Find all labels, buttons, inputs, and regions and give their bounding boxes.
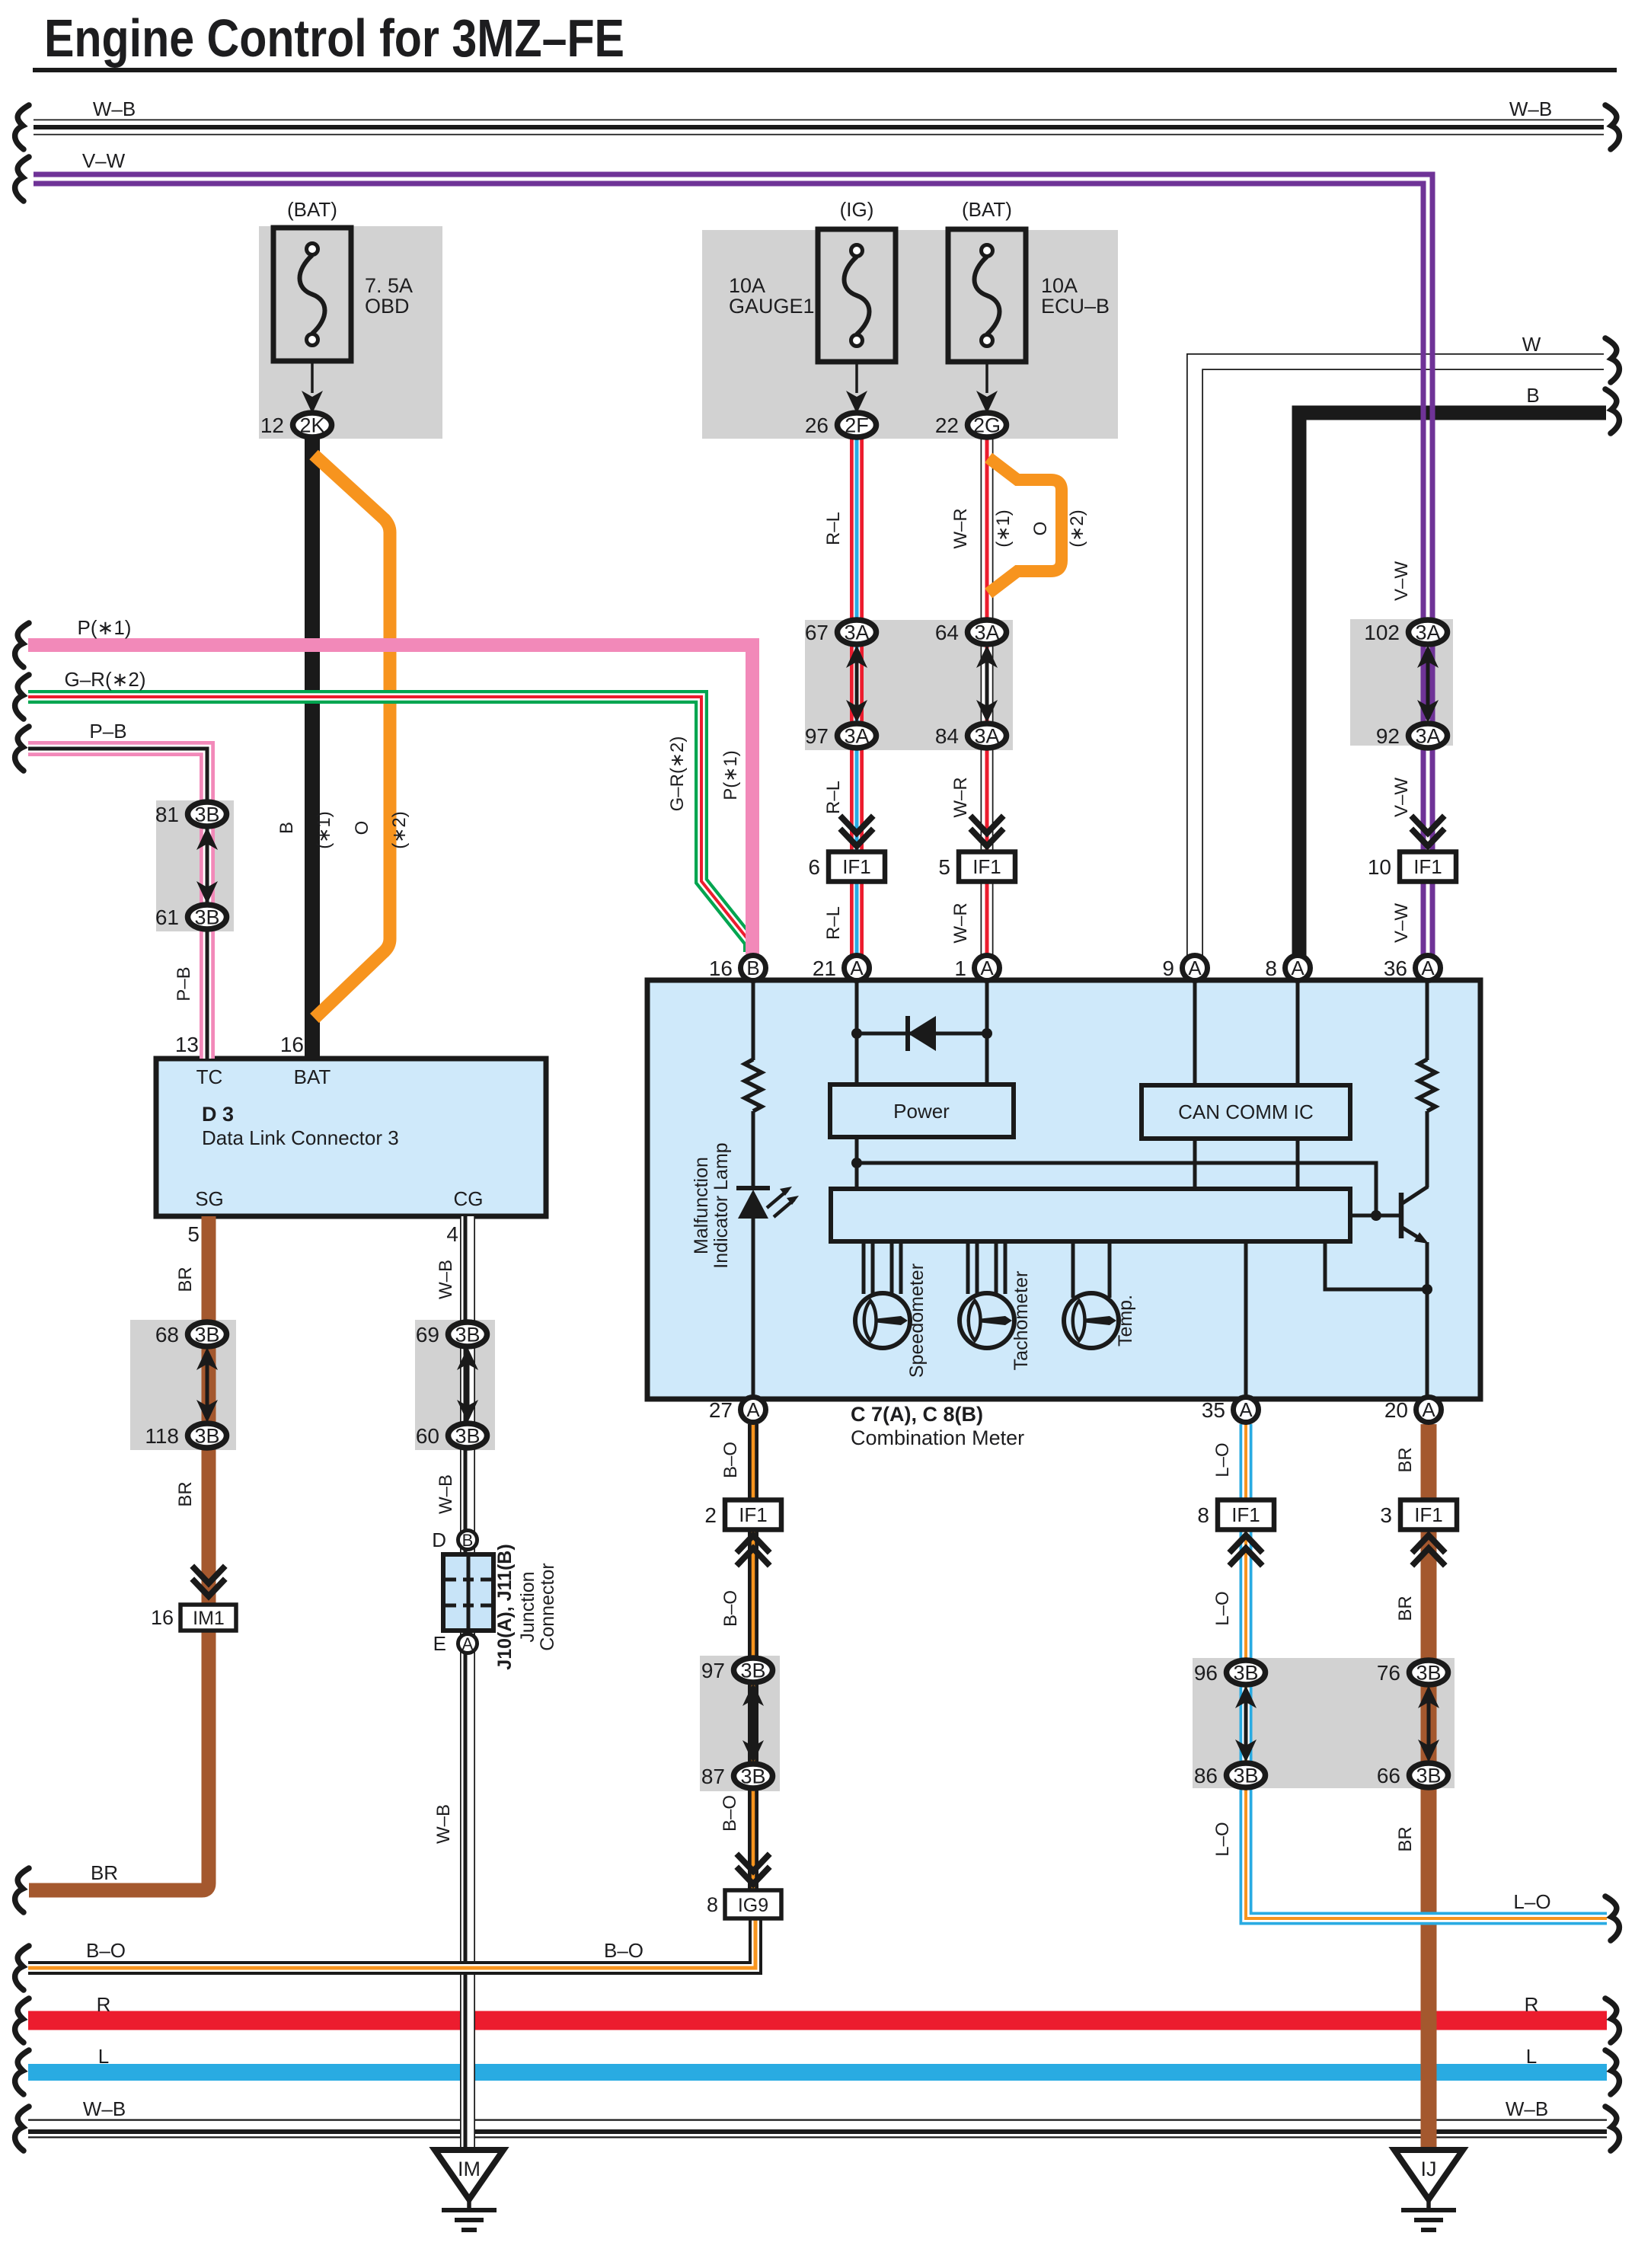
wires CAN to bus box <box>1193 1139 1197 1189</box>
wires pins to Power <box>855 1033 859 1084</box>
svg-text:IF1: IF1 <box>1231 1503 1260 1526</box>
svg-text:B: B <box>1526 384 1539 407</box>
svg-text:3: 3 <box>1380 1503 1392 1527</box>
svg-text:GAUGE1: GAUGE1 <box>729 295 815 318</box>
transistor Q <box>1350 1187 1429 1244</box>
wire W-B bus (bottom) <box>28 2119 1607 2139</box>
fuse block shading (GAUGE1 / ECU-B) <box>702 230 1118 439</box>
wire L-O from pin35 to right edge <box>1246 1424 1607 1918</box>
svg-text:A: A <box>1291 957 1304 979</box>
svg-text:IG9: IG9 <box>738 1895 768 1916</box>
svg-text:A: A <box>462 1634 474 1653</box>
wire BR from DLC3 SG to IM1 <box>202 1216 216 1607</box>
connector block shading (96/86/76/66 3B) <box>1193 1658 1455 1788</box>
svg-text:G–R(∗2): G–R(∗2) <box>667 736 688 812</box>
svg-text:OBD: OBD <box>365 295 410 318</box>
svg-text:W–B: W–B <box>93 97 136 120</box>
fuse 10A ECU-B <box>948 198 1110 414</box>
wire B from 2K to DLC3 BAT <box>305 438 320 1059</box>
svg-text:W–B: W–B <box>1506 2097 1548 2120</box>
connector 10 IF1 <box>1413 818 1442 833</box>
svg-text:IF1: IF1 <box>1414 1503 1443 1526</box>
svg-text:67: 67 <box>805 621 829 644</box>
connector 16 IM1 <box>194 1568 223 1583</box>
connector pair 68/118 3B <box>196 1347 218 1423</box>
temp gauge <box>1064 1293 1119 1348</box>
svg-text:V–W: V–W <box>1391 903 1412 943</box>
tachometer gauge <box>960 1293 1014 1348</box>
svg-text:4: 4 <box>446 1222 458 1246</box>
svg-text:97: 97 <box>701 1659 725 1682</box>
svg-text:3A: 3A <box>1415 725 1440 748</box>
svg-text:64: 64 <box>935 621 959 644</box>
svg-text:W–B: W–B <box>1509 97 1552 120</box>
svg-text:12: 12 <box>260 414 284 437</box>
connector pair 67/97 3A <box>846 645 867 723</box>
junction pin D B <box>432 1529 477 1551</box>
svg-text:84: 84 <box>935 724 959 748</box>
svg-text:ECU–B: ECU–B <box>1041 295 1110 318</box>
svg-text:IF1: IF1 <box>739 1503 768 1526</box>
svg-text:(BAT): (BAT) <box>287 198 337 221</box>
connector 22 2G <box>935 413 1007 437</box>
DLC3 labels <box>195 1065 483 1210</box>
svg-text:SG: SG <box>195 1187 224 1210</box>
svg-text:26: 26 <box>805 414 829 437</box>
connector block shading (102/92 3A) <box>1350 619 1453 746</box>
DLC3 pin numbers <box>175 1033 458 1246</box>
svg-text:3A: 3A <box>974 621 999 644</box>
meter pin 21 A <box>813 956 870 981</box>
svg-text:36: 36 <box>1384 957 1407 980</box>
svg-text:5: 5 <box>938 855 950 879</box>
svg-text:3B: 3B <box>740 1659 765 1682</box>
Power box <box>830 1084 1014 1137</box>
svg-text:92: 92 <box>1376 724 1400 748</box>
wire W-B bus (top) <box>34 120 1604 136</box>
svg-text:J10(A), J11(B): J10(A), J11(B) <box>494 1544 516 1669</box>
svg-text:21: 21 <box>813 957 836 980</box>
svg-text:Connector: Connector <box>537 1563 558 1650</box>
svg-text:L–O: L–O <box>1212 1591 1233 1625</box>
svg-text:3B: 3B <box>740 1765 765 1788</box>
svg-text:W–B: W–B <box>83 2097 126 2120</box>
gauge feed wires <box>864 1241 1110 1298</box>
svg-text:16: 16 <box>151 1606 174 1629</box>
connector 8 IG9 <box>739 1856 768 1871</box>
svg-text:R: R <box>1525 1993 1539 2016</box>
svg-text:R: R <box>97 1993 111 2016</box>
svg-text:G–R(∗2): G–R(∗2) <box>64 668 145 691</box>
connector pair 97/87 3B <box>742 1683 764 1763</box>
resistor (pull-up V-W) <box>1419 1059 1435 1111</box>
wire O (*2) branch around 2K <box>314 455 390 1018</box>
svg-text:B–O: B–O <box>86 1939 126 1962</box>
svg-text:B: B <box>462 1531 474 1550</box>
meter pin 27 A <box>709 1398 766 1423</box>
fuse 7.5A OBD <box>273 198 413 414</box>
svg-text:3B: 3B <box>194 803 219 826</box>
svg-text:118: 118 <box>145 1424 179 1448</box>
svg-text:1: 1 <box>954 957 966 980</box>
svg-text:8: 8 <box>707 1893 718 1916</box>
svg-text:R–L: R–L <box>823 781 844 814</box>
connector pair 81/61 3B <box>196 827 218 904</box>
svg-text:L–O: L–O <box>1212 1822 1233 1856</box>
svg-text:CG: CG <box>454 1187 484 1210</box>
wire bus box to pin35 <box>1244 1241 1248 1397</box>
combination meter C7(A), C8(B) box <box>647 980 1480 1399</box>
svg-text:TC: TC <box>196 1065 223 1088</box>
diode <box>851 1016 992 1051</box>
svg-text:B–O: B–O <box>720 1590 741 1627</box>
svg-text:W–B: W–B <box>436 1474 456 1514</box>
ground IJ <box>1394 2150 1463 2230</box>
svg-text:22: 22 <box>935 414 959 437</box>
svg-text:IJ: IJ <box>1420 2158 1436 2180</box>
svg-text:2G: 2G <box>973 414 1001 437</box>
svg-text:6: 6 <box>808 855 820 879</box>
rotated wire labels <box>174 508 1416 1856</box>
svg-text:3B: 3B <box>455 1324 480 1346</box>
meter pin 35 A <box>1202 1398 1259 1423</box>
svg-text:D: D <box>432 1529 446 1551</box>
svg-text:97: 97 <box>805 724 829 748</box>
svg-text:A: A <box>850 957 864 979</box>
svg-text:W: W <box>1522 333 1541 356</box>
connector block shading (69/60 3B) <box>415 1320 495 1450</box>
connector 12 2K <box>260 413 332 437</box>
svg-text:B–O: B–O <box>604 1939 643 1962</box>
svg-text:(∗1): (∗1) <box>993 510 1014 547</box>
svg-text:3A: 3A <box>844 725 869 748</box>
svg-text:13: 13 <box>175 1033 199 1056</box>
LED malfunction indicator lamp <box>736 1187 799 1397</box>
svg-text:A: A <box>1239 1398 1253 1421</box>
svg-text:A: A <box>980 957 994 979</box>
svg-text:A: A <box>746 1398 760 1421</box>
svg-text:3B: 3B <box>1416 1765 1441 1787</box>
svg-text:BR: BR <box>175 1481 196 1506</box>
svg-text:P(∗1): P(∗1) <box>78 616 132 639</box>
svg-text:61: 61 <box>155 906 179 929</box>
wire W-R from 2G to pin1 <box>981 438 994 956</box>
svg-text:3B: 3B <box>1416 1662 1441 1685</box>
svg-text:W–B: W–B <box>436 1260 456 1299</box>
svg-text:L–O: L–O <box>1513 1890 1550 1913</box>
svg-text:B: B <box>746 957 759 979</box>
svg-text:5: 5 <box>187 1222 200 1246</box>
svg-text:66: 66 <box>1377 1764 1400 1787</box>
svg-text:3B: 3B <box>194 906 219 929</box>
resistor (MIL dropping) <box>745 1059 762 1111</box>
svg-text:L: L <box>1526 2045 1537 2068</box>
svg-text:BR: BR <box>175 1267 196 1292</box>
svg-text:(∗2): (∗2) <box>1067 510 1087 547</box>
connector pair 64/84 3A <box>976 645 998 723</box>
meter pin 16 B <box>709 956 766 981</box>
meter pin 8 A <box>1265 956 1310 981</box>
svg-text:Speedometer: Speedometer <box>906 1263 928 1378</box>
svg-text:P(∗1): P(∗1) <box>720 750 741 800</box>
label C7(A), C8(B) Combination Meter <box>851 1403 1024 1449</box>
internal bus box <box>831 1189 1350 1241</box>
svg-text:3A: 3A <box>974 725 999 748</box>
svg-text:2K: 2K <box>299 414 324 437</box>
svg-text:3A: 3A <box>844 621 869 644</box>
svg-text:E: E <box>433 1632 446 1655</box>
svg-text:V–W: V–W <box>1391 561 1412 601</box>
svg-text:10: 10 <box>1368 855 1391 879</box>
wire B-O from pin27 to IG9 <box>748 1424 758 1904</box>
title: Engine Control for 3MZ-FE <box>33 8 1617 72</box>
svg-text:102: 102 <box>1364 621 1400 644</box>
svg-text:3B: 3B <box>1233 1662 1258 1685</box>
wire O (*2) loop at 2G <box>988 458 1062 593</box>
svg-text:IM: IM <box>458 2158 481 2180</box>
svg-text:IF1: IF1 <box>1413 855 1442 878</box>
svg-text:(BAT): (BAT) <box>962 198 1012 221</box>
junction pin E A <box>433 1632 477 1655</box>
svg-text:W–R: W–R <box>950 902 971 943</box>
svg-text:(IG): (IG) <box>840 198 874 221</box>
svg-text:2F: 2F <box>845 414 869 437</box>
svg-text:87: 87 <box>701 1765 725 1788</box>
wire V-W bus to pin36 <box>34 174 1432 956</box>
meter pin 36 A <box>1384 956 1441 981</box>
svg-text:B–O: B–O <box>720 1442 741 1478</box>
svg-text:BAT: BAT <box>294 1065 331 1088</box>
wire P-B from left edge to DLC3 TC <box>28 749 207 1059</box>
connector block shading (3A x4) <box>805 620 1013 750</box>
svg-text:BR: BR <box>1395 1596 1416 1621</box>
svg-text:IF1: IF1 <box>972 855 1001 878</box>
connector block shading (97/87 3B) <box>700 1656 780 1791</box>
svg-text:BR: BR <box>1395 1826 1416 1851</box>
svg-text:P–B: P–B <box>174 966 194 1001</box>
fuse block shading (OBD) <box>259 226 442 439</box>
wire BR from IM1 to bottom left edge <box>29 1627 209 1890</box>
svg-text:8: 8 <box>1265 957 1277 980</box>
fuse 10A GAUGE1 <box>729 198 896 414</box>
ground IM <box>435 2150 503 2230</box>
svg-text:Engine Control for 3MZ–FE: Engine Control for 3MZ–FE <box>44 8 624 68</box>
svg-text:CAN COMM IC: CAN COMM IC <box>1178 1100 1314 1123</box>
continuation braces left <box>15 105 29 149</box>
svg-text:7. 5A: 7. 5A <box>365 274 413 297</box>
svg-text:BR: BR <box>91 1861 118 1884</box>
svg-text:BR: BR <box>1395 1447 1416 1472</box>
svg-text:3B: 3B <box>194 1425 219 1448</box>
svg-text:(∗1): (∗1) <box>314 811 334 848</box>
connector 26 2F <box>805 413 877 437</box>
wire MIL <box>752 1111 755 1188</box>
meter pin 1 A <box>954 956 999 981</box>
wire P(*1) from left edge to pin16 B <box>28 645 752 956</box>
svg-text:O: O <box>1030 522 1051 536</box>
svg-text:76: 76 <box>1377 1661 1400 1685</box>
svg-text:C 7(A), C 8(B): C 7(A), C 8(B) <box>851 1403 983 1426</box>
connector 8 IF1 <box>1197 1500 1274 1530</box>
combination meter internal circuit <box>753 982 1427 1088</box>
connector block shading (68/118 3B) <box>130 1320 236 1450</box>
svg-text:D 3: D 3 <box>202 1103 234 1126</box>
connector pair 69/60 3B <box>457 1347 478 1423</box>
connector 2 IF1 <box>704 1500 781 1530</box>
svg-text:A: A <box>1422 1398 1435 1421</box>
svg-text:R–L: R–L <box>823 906 844 940</box>
svg-text:69: 69 <box>416 1323 439 1346</box>
connector block shading (81/61 3B) <box>156 800 234 931</box>
wire R bus (bottom) <box>28 2011 1607 2030</box>
svg-text:27: 27 <box>709 1398 733 1422</box>
svg-text:P–B: P–B <box>89 720 126 743</box>
svg-text:81: 81 <box>155 803 179 826</box>
svg-text:R–L: R–L <box>823 512 844 545</box>
wire Power to bus box, junction <box>851 1137 1376 1215</box>
wire B (right) to pin8 <box>1299 413 1606 956</box>
svg-text:A: A <box>1421 957 1435 979</box>
svg-text:IM1: IM1 <box>193 1608 225 1629</box>
svg-text:16: 16 <box>709 957 733 980</box>
svg-text:16: 16 <box>280 1033 304 1056</box>
CAN COMM IC box <box>1142 1085 1350 1139</box>
svg-text:Malfunction: Malfunction <box>691 1157 712 1254</box>
svg-text:9: 9 <box>1162 957 1174 980</box>
svg-text:W–R: W–R <box>950 777 971 817</box>
svg-text:Data Link Connector 3: Data Link Connector 3 <box>202 1126 399 1149</box>
svg-text:(∗2): (∗2) <box>389 811 410 848</box>
svg-text:B–O: B–O <box>720 1795 740 1832</box>
svg-text:10A: 10A <box>729 274 765 297</box>
wire L bus (bottom) <box>28 2064 1607 2081</box>
svg-text:Power: Power <box>893 1100 950 1123</box>
svg-text:2: 2 <box>704 1503 717 1527</box>
wire W-B from CG pin4 via J10/J11 to IM ground <box>460 1216 475 2148</box>
svg-text:W–R: W–R <box>950 508 971 548</box>
svg-text:68: 68 <box>155 1323 179 1346</box>
meter pin 20 A <box>1384 1398 1442 1423</box>
svg-text:IF1: IF1 <box>842 855 871 878</box>
svg-text:10A: 10A <box>1041 274 1078 297</box>
svg-text:Junction: Junction <box>517 1571 538 1642</box>
continuation braces right <box>1605 105 1619 149</box>
connector pair 96/86 3B <box>1235 1685 1257 1762</box>
wire BR from pin20 to IJ ground <box>1421 1424 1437 2148</box>
meter pin 9 A <box>1162 956 1207 981</box>
wire W (right) to pin9 <box>1195 362 1604 956</box>
svg-text:Temp.: Temp. <box>1115 1295 1136 1346</box>
svg-text:96: 96 <box>1194 1661 1218 1685</box>
svg-text:Combination Meter: Combination Meter <box>851 1426 1024 1449</box>
connector 6 IF1 <box>842 818 871 833</box>
wire collector to resistor <box>1426 1111 1429 1187</box>
svg-text:60: 60 <box>416 1424 439 1448</box>
svg-text:20: 20 <box>1384 1398 1408 1422</box>
connector pair 102/92 3A <box>1417 645 1439 723</box>
svg-text:3B: 3B <box>194 1324 219 1346</box>
svg-text:Tachometer: Tachometer <box>1011 1271 1032 1371</box>
svg-text:V–W: V–W <box>1391 778 1412 817</box>
svg-text:3B: 3B <box>1233 1765 1258 1787</box>
svg-text:86: 86 <box>1194 1764 1218 1787</box>
svg-text:V–W: V–W <box>82 149 126 172</box>
svg-text:L: L <box>98 2045 109 2068</box>
connector pair 76/66 3B <box>1418 1685 1439 1762</box>
svg-text:3B: 3B <box>455 1425 480 1448</box>
svg-text:Indicator Lamp: Indicator Lamp <box>711 1142 732 1268</box>
svg-text:L–O: L–O <box>1212 1442 1233 1477</box>
svg-text:3A: 3A <box>1415 621 1440 644</box>
wire R-L from 2F to pin21 <box>850 438 864 956</box>
speedometer gauge <box>855 1293 910 1348</box>
junction connector J10(A), J11(B) <box>443 1554 493 1631</box>
svg-text:8: 8 <box>1197 1503 1209 1527</box>
data link connector D3 box <box>156 1059 546 1216</box>
wire emitter to pin20, junction <box>1325 1241 1432 1397</box>
svg-text:35: 35 <box>1202 1398 1225 1422</box>
connector 5 IF1 <box>972 818 1001 833</box>
connector 3 IF1 <box>1380 1500 1457 1530</box>
svg-text:W–B: W–B <box>433 1804 454 1844</box>
svg-text:A: A <box>1188 957 1202 979</box>
svg-text:B: B <box>276 822 297 834</box>
wire G-R(*2) from left edge merging to pin16 B <box>28 697 750 952</box>
wire B-O bus (bottom left) to IG9 <box>28 1915 755 1968</box>
svg-text:O: O <box>352 821 372 835</box>
